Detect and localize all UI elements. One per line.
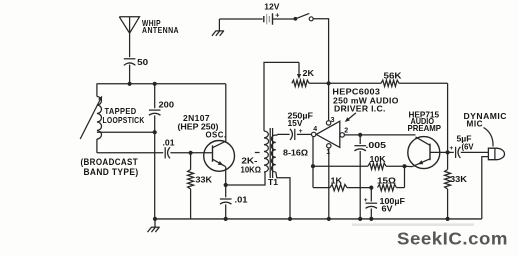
pin number labels	[313, 117, 348, 156]
wire cap 50 to top rail	[129, 65, 131, 84]
node secondary to rail	[288, 217, 292, 221]
svg-text:2K: 2K	[303, 68, 315, 78]
svg-text:4: 4	[313, 126, 317, 133]
svg-text:T1: T1	[268, 178, 278, 187]
arrowhead of loopstick arrow	[98, 96, 102, 101]
resistor 2K rheostat	[292, 80, 329, 86]
resistor 1K	[313, 184, 371, 190]
label 2N107 (HEP 250) OSC.	[178, 113, 227, 140]
pointer curve from MIC label	[484, 128, 494, 147]
svg-text:+: +	[275, 10, 279, 19]
svg-text:2: 2	[344, 128, 348, 135]
node base junction Q2	[446, 150, 450, 154]
label TAPPED LOOPSTICK	[103, 106, 145, 125]
wire antenna to cap 50	[129, 33, 131, 57]
pin 2 (right)	[340, 133, 344, 137]
node base junction 2N107	[189, 151, 193, 155]
node 1K/15ohm/100uF junction	[369, 186, 373, 190]
node antenna/top rail junction	[128, 82, 132, 86]
svg-text:1K: 1K	[331, 176, 343, 186]
resistor 33K (preamp)	[445, 152, 451, 219]
pin 3 (top)	[326, 121, 330, 125]
battery 12V	[219, 13, 294, 24]
svg-text:MIC: MIC	[467, 118, 484, 128]
node emitter junction	[224, 183, 228, 187]
node feedback/10K junction	[311, 164, 315, 168]
svg-text:.01: .01	[235, 194, 248, 204]
wire emitter Q2 to junction	[405, 165, 413, 167]
svg-text:SeekIC.com: SeekIC.com	[397, 228, 508, 248]
dynamic microphone	[488, 148, 504, 160]
transistor Q2 HEP715	[408, 137, 440, 169]
emitter arrowhead Q1	[218, 161, 223, 165]
wire base line left	[97, 152, 163, 154]
node 2K/56K/supply junction	[327, 81, 331, 85]
label 100uF 6V	[380, 196, 406, 214]
wire loopstick tap	[97, 131, 155, 133]
node top rail / 200 branch	[153, 82, 157, 86]
wire .01 to base	[170, 152, 212, 154]
svg-text:.005: .005	[366, 140, 387, 150]
svg-text:50: 50	[137, 57, 148, 67]
svg-text:10KΩ: 10KΩ	[241, 165, 262, 175]
wire base Q2	[430, 151, 448, 153]
capacitor 200	[149, 84, 161, 132]
svg-text:6V: 6V	[382, 204, 393, 214]
node .005 junction	[358, 133, 362, 137]
capacitor .005	[354, 135, 366, 219]
svg-text:BAND TYPE): BAND TYPE)	[84, 167, 139, 177]
svg-text:LOOPSTICK: LOOPSTICK	[103, 115, 145, 125]
resistor 56K	[329, 80, 448, 86]
wire switch to supply drop	[313, 19, 328, 84]
svg-text:PREAMP: PREAMP	[408, 123, 442, 133]
ground (battery)	[212, 19, 224, 36]
transistor Q1 2N107	[204, 141, 235, 172]
svg-text:33K: 33K	[196, 174, 213, 184]
wire collector Q1 up to rail	[225, 84, 227, 142]
resistor 33K (osc base)	[188, 153, 194, 219]
pin 4 (output, left tip)	[312, 132, 316, 136]
node 100uF to rail	[369, 217, 373, 221]
capacitor 100uF 6V	[366, 188, 378, 219]
svg-text:+: +	[299, 128, 303, 135]
svg-text:+: +	[449, 145, 453, 152]
svg-text:33K: 33K	[450, 174, 468, 184]
whip antenna	[119, 17, 139, 33]
svg-text:(BROADCAST: (BROADCAST	[81, 157, 139, 167]
svg-text:ANTENNA: ANTENNA	[142, 25, 179, 35]
label 2K-10KOhm tap	[241, 156, 262, 175]
node 33K to rail	[446, 217, 450, 221]
label HEPC6003 250 mW AUDIO DRIVER I.C.	[332, 87, 398, 114]
capacitor .01 coupling	[164, 147, 166, 158]
svg-text:(6V: (6V	[462, 141, 474, 151]
label 5uF (6V	[457, 134, 474, 152]
wire pin1 down to rail	[328, 148, 330, 219]
svg-text:+: +	[364, 197, 368, 204]
svg-text:8-16Ω: 8-16Ω	[283, 148, 308, 158]
wire rheostat wiper arrow	[298, 62, 300, 76]
wire op-amp output pin2 to preamp collector	[344, 134, 415, 136]
transformer secondary bottom to rail	[276, 172, 290, 219]
wire mic return	[482, 157, 489, 219]
node bottom rail left / ground	[153, 217, 157, 221]
wire emitter Q1 down	[225, 167, 227, 185]
pointer arrow from label to op-amp	[347, 113, 356, 121]
wire 56K down to preamp base	[447, 83, 449, 152]
label DYNAMIC MIC	[464, 111, 508, 128]
svg-text:DRIVER I.C.: DRIVER I.C.	[334, 104, 386, 114]
svg-text:15V: 15V	[288, 118, 303, 128]
svg-text:OSC.: OSC.	[206, 130, 227, 140]
wire supply down to op-amp pin 3	[328, 83, 330, 120]
capacitor 250uF 15V	[276, 129, 312, 140]
label WHIP ANTENNA	[142, 18, 179, 35]
op-amp U1 HEPC6003	[316, 121, 340, 147]
ground (bottom rail)	[148, 219, 160, 232]
capacitor 50	[124, 59, 136, 66]
capacitor 5uF 6V	[448, 147, 489, 158]
wire top rail	[97, 83, 226, 85]
switch S1	[294, 13, 314, 20]
pin 1 (bottom)	[327, 144, 331, 148]
node .005 to rail	[358, 217, 362, 221]
wire primary top to 12V feed	[264, 62, 299, 131]
watermark smudge	[352, 223, 474, 226]
resistor 10K	[313, 163, 405, 169]
wire tap stub	[255, 152, 260, 154]
wire 200 branch down to bottom rail	[154, 132, 156, 219]
label 250uF 15V	[288, 110, 314, 128]
wire pin4 feedback drop	[312, 137, 314, 188]
svg-text:200: 200	[159, 99, 175, 109]
resistor 15 Ohm	[378, 166, 405, 191]
svg-text:3: 3	[331, 117, 335, 124]
emitter arrowhead Q2	[418, 160, 423, 164]
node pin1 to rail	[327, 217, 331, 221]
svg-text:56K: 56K	[384, 71, 403, 81]
node emitter bypass to rail	[224, 217, 228, 221]
node tap junction	[153, 130, 157, 134]
capacitor .01 emitter bypass	[220, 185, 232, 219]
node 10K/emitter/15ohm junction	[402, 164, 406, 168]
svg-text:10K: 10K	[370, 154, 387, 164]
transformer T1	[264, 128, 276, 178]
svg-text:15Ω: 15Ω	[377, 175, 396, 185]
wire bottom rail	[155, 218, 482, 220]
label HEP715 AUDIO PREAMP	[408, 110, 442, 134]
tapped loopstick inductor L1	[80, 84, 101, 153]
label (BROADCAST BAND TYPE)	[81, 157, 139, 177]
svg-text:.01: .01	[163, 137, 175, 147]
wire emitter to transformer primary bottom	[226, 172, 265, 185]
